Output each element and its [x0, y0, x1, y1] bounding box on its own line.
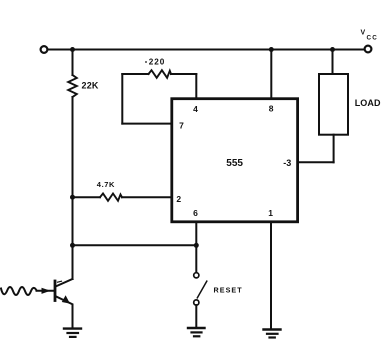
wire loop left vertical	[121, 74, 123, 124]
svg-text:8: 8	[269, 104, 274, 114]
resistor R1 22K	[68, 75, 99, 97]
wire pin 3 lead	[298, 161, 334, 163]
svg-text:7: 7	[179, 121, 184, 131]
junction top rail to load	[330, 47, 335, 52]
junction pin 6 wire with reset branch	[194, 243, 199, 248]
pin 3 label	[283, 158, 291, 168]
wire left branch between junctions	[72, 197, 74, 245]
input signal source waveform	[1, 287, 54, 295]
wire 4.7K left lead	[73, 196, 101, 198]
ground under pin 1	[264, 330, 281, 338]
junction 22K branch with 4.7K wire	[70, 195, 75, 200]
resistor R3 220	[145, 58, 171, 78]
svg-text:22K: 22K	[82, 81, 99, 91]
wire pin 1 lead	[270, 223, 272, 330]
junction top rail to 22K branch	[70, 47, 75, 52]
wire top supply rail	[48, 49, 364, 51]
svg-text:2: 2	[176, 194, 181, 204]
wire 22K lower lead down left branch	[72, 97, 74, 197]
IC U1 555 timer	[172, 99, 298, 222]
wire pin 6 lead	[195, 223, 197, 246]
wire reset lower lead	[195, 305, 197, 327]
label Vcc	[361, 30, 379, 42]
wire pin 7 lead	[122, 123, 172, 125]
svg-text:4: 4	[193, 104, 198, 114]
svg-text:V: V	[361, 30, 366, 37]
pin 1 label	[268, 208, 273, 218]
ground under reset switch	[188, 328, 205, 336]
wire collector lead	[72, 245, 74, 279]
wire loop top right segment	[171, 73, 196, 75]
svg-text:RESET: RESET	[214, 285, 243, 294]
wire load upper lead	[332, 50, 334, 74]
junction top rail to pin 8	[269, 47, 274, 52]
junction left branch with pin6 wire	[70, 243, 75, 248]
svg-text:-3: -3	[283, 158, 291, 168]
resistor R2 4.7K	[97, 180, 122, 201]
node Vcc input terminal left	[41, 46, 48, 53]
wire pin 4 lead	[195, 74, 197, 98]
wire reset upper lead	[195, 245, 197, 272]
switch S1 RESET	[194, 273, 207, 305]
wire loop top left segment	[122, 73, 148, 75]
resistor LOAD box	[319, 74, 381, 135]
pin 4 label	[193, 104, 198, 114]
svg-text:6: 6	[193, 208, 198, 218]
wire pin 8 lead	[270, 50, 272, 99]
svg-text:1: 1	[268, 208, 273, 218]
wire 22K upper lead	[72, 50, 74, 76]
pin 8 label	[269, 104, 274, 114]
svg-text:555: 555	[226, 158, 243, 169]
svg-text:220: 220	[149, 58, 165, 67]
pin 2 label	[176, 194, 181, 204]
svg-text:4.7K: 4.7K	[97, 180, 115, 189]
transistor Q1	[55, 279, 73, 304]
label RESET	[214, 285, 243, 294]
wire emitter lead	[72, 305, 74, 328]
wire pin6 horizontal to left branch	[73, 244, 197, 246]
wire 4.7K right lead to pin 2	[122, 196, 172, 198]
pin 6 label	[193, 208, 198, 218]
pin 7 label	[179, 121, 184, 131]
ground under transistor	[64, 329, 81, 337]
node Vcc terminal right	[365, 46, 372, 53]
svg-text:LOAD: LOAD	[355, 98, 381, 108]
wire load lower lead	[333, 135, 335, 163]
svg-text:CC: CC	[367, 35, 379, 42]
